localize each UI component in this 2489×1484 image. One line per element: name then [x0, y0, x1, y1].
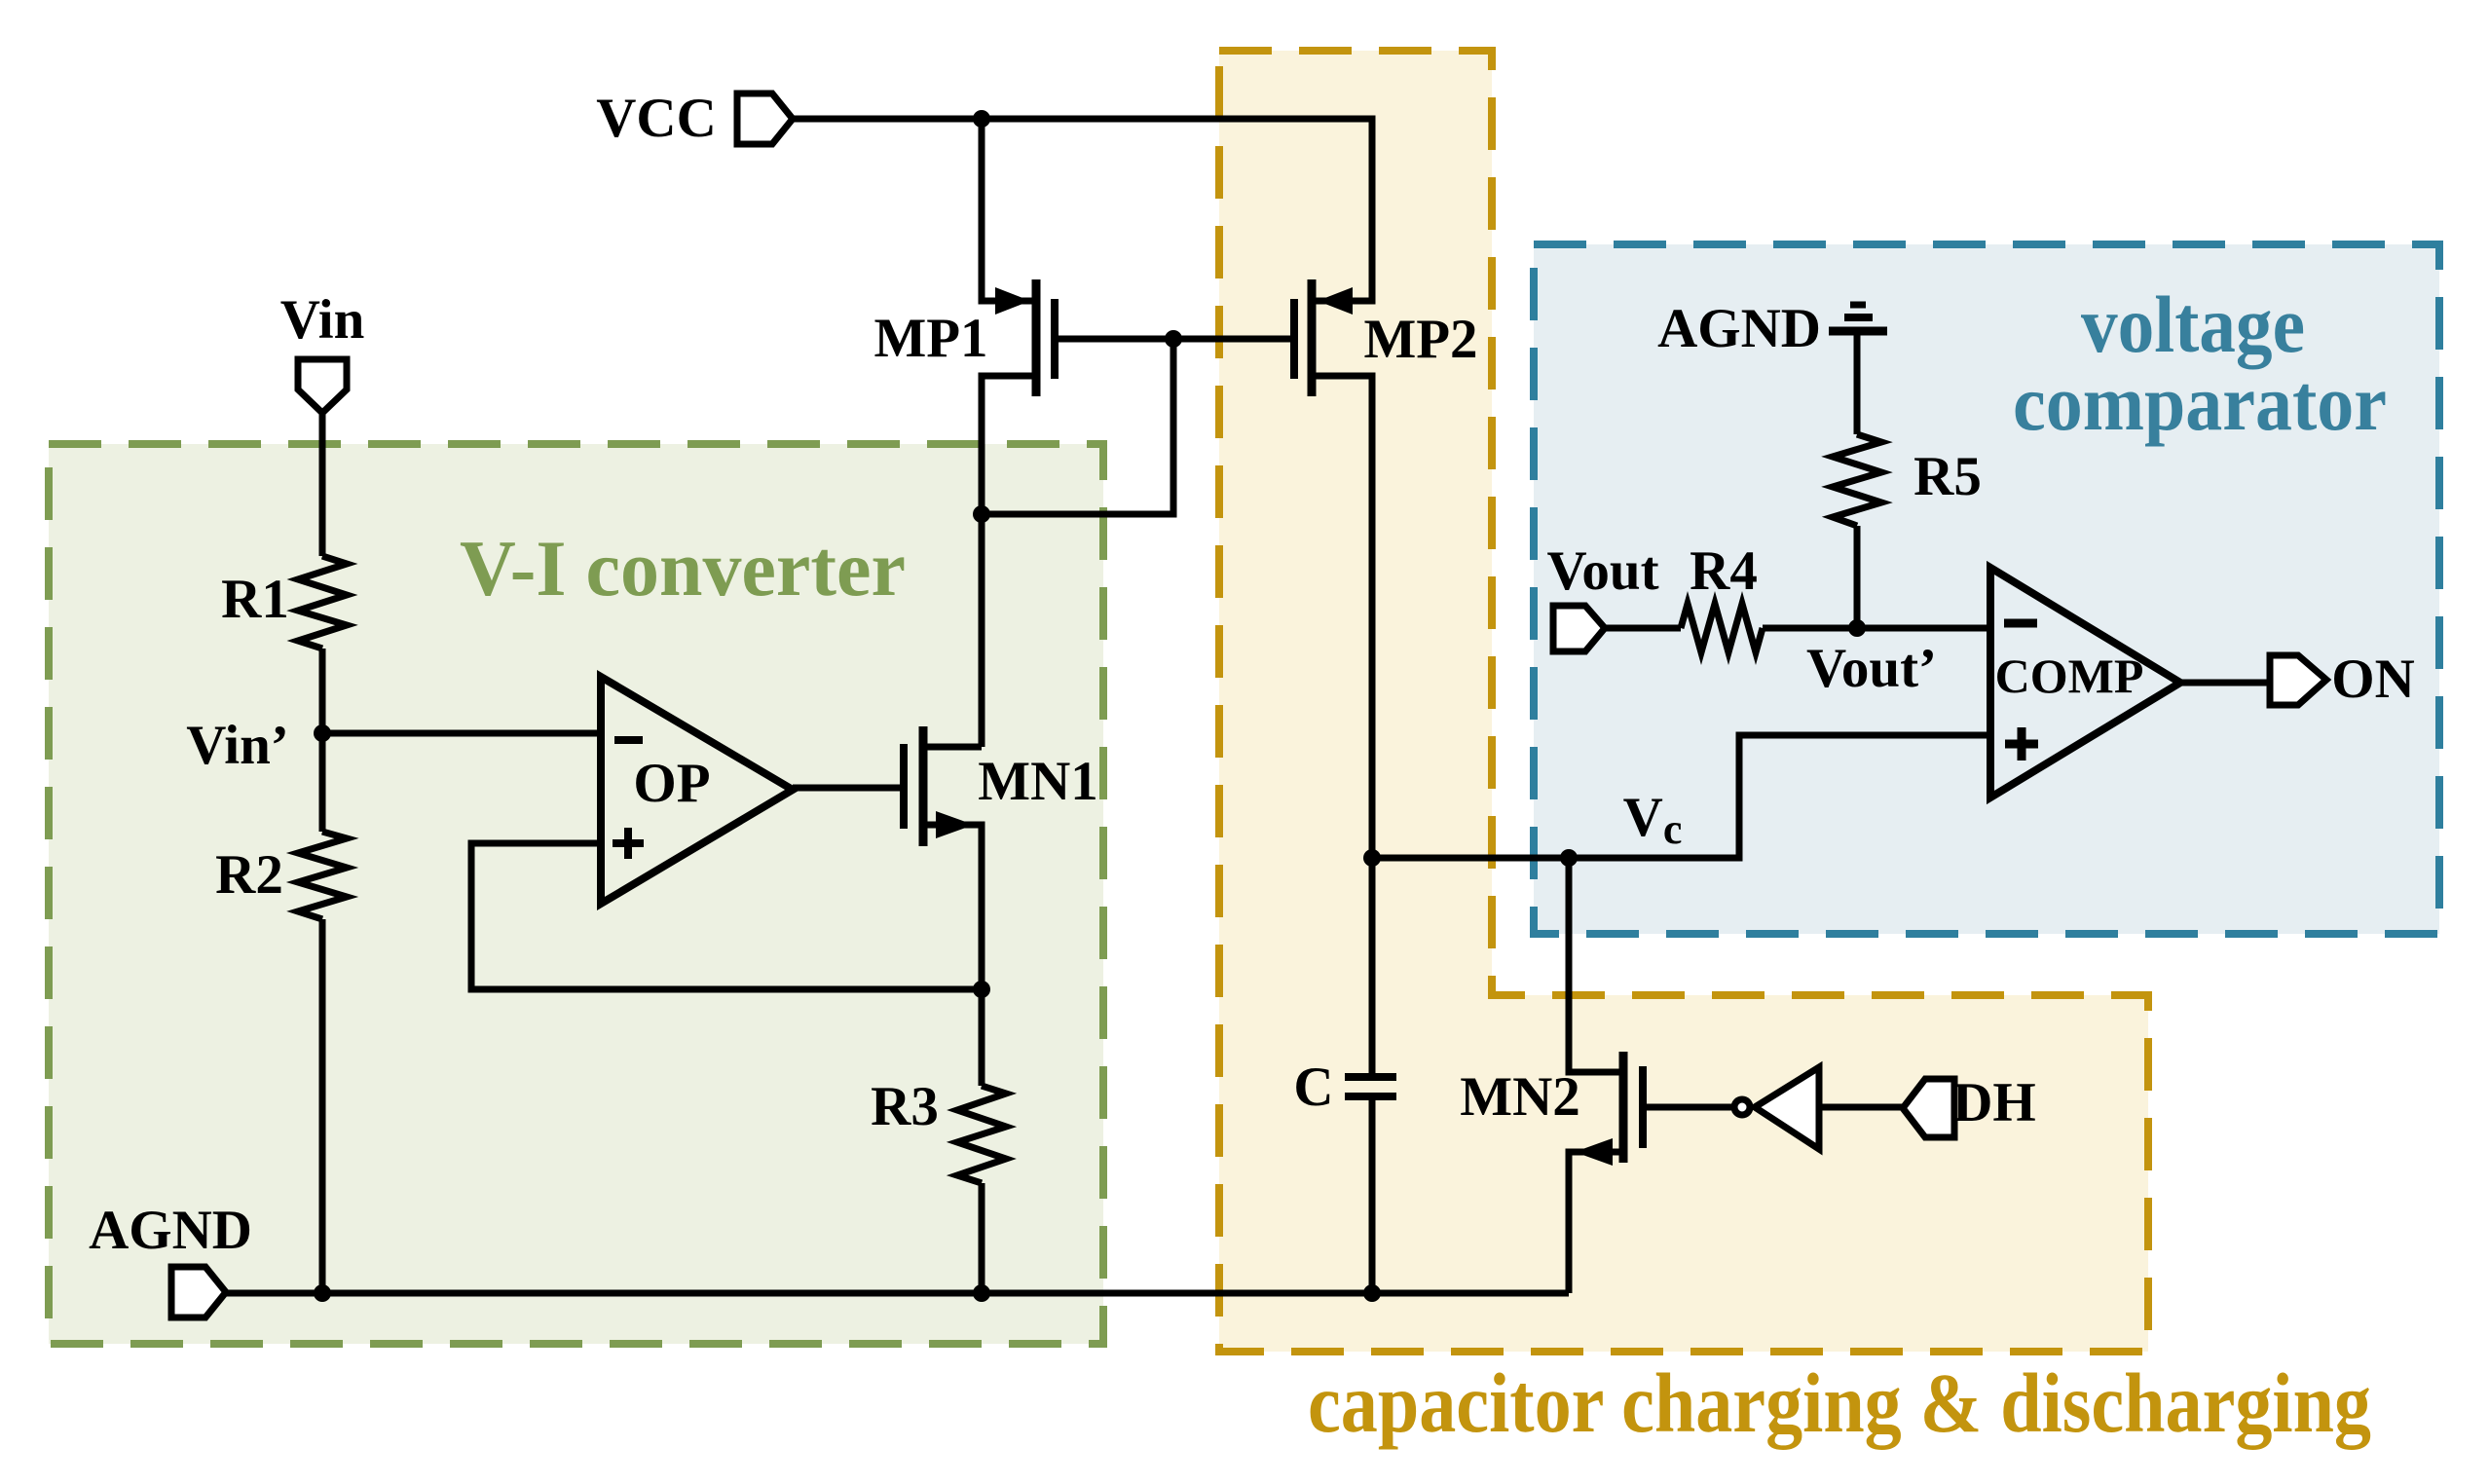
svg-text:MN2: MN2	[1460, 1066, 1579, 1128]
node dot VCC branch	[973, 110, 990, 128]
port DH	[1903, 1079, 1954, 1137]
inverter U1	[1734, 1067, 1819, 1149]
wire Vc to COMP plus input	[1372, 735, 1990, 858]
svg-text:MP2: MP2	[1363, 309, 1477, 370]
node dot Vc at MP2 drain	[1363, 849, 1381, 867]
svg-text:Vout’: Vout’	[1806, 638, 1937, 699]
node dot MP1 drain	[973, 505, 990, 523]
svg-text:R1: R1	[221, 569, 289, 630]
wire AGND bottom rail	[226, 1290, 1569, 1297]
ground symbol AGND (blue box)	[1829, 305, 1887, 331]
wire Vin' node to R2	[319, 733, 326, 832]
transistor MP1	[995, 279, 1055, 396]
wire MP1 drain stub and vertical	[982, 376, 1036, 747]
node dot AGND-C	[1363, 1284, 1381, 1302]
svg-text:AGND: AGND	[89, 1200, 252, 1261]
svg-text:Vin: Vin	[280, 289, 365, 351]
svg-text:capacitor charging & dischargi: capacitor charging & discharging	[1308, 1355, 2371, 1450]
resistor R3	[957, 1086, 1006, 1183]
port Vout	[1553, 606, 1605, 651]
svg-text:OP: OP	[633, 753, 710, 814]
comparator COMP	[1990, 568, 2180, 798]
node dot gate bus	[1165, 330, 1182, 348]
wire OP output to MN1 gate	[793, 785, 904, 792]
wire R1 to Vin' node	[319, 649, 326, 733]
wire MP1 source riser and stub	[982, 119, 1032, 301]
wire VCC rail top	[790, 119, 1372, 301]
wire MN2 source	[1569, 1152, 1623, 1293]
wire gate bus MP1-MP2	[1055, 336, 1294, 343]
capacitor C	[1345, 1077, 1396, 1096]
node dot AGND-R3	[973, 1284, 990, 1302]
svg-text:COMP: COMP	[1995, 649, 2144, 703]
node dot Vc at MN2 drain	[1560, 849, 1578, 867]
svg-text:AGND: AGND	[1657, 298, 1821, 359]
wire inverter input	[1819, 1104, 1903, 1111]
svg-text:DH: DH	[1952, 1072, 2036, 1133]
resistor R2	[298, 832, 347, 919]
svg-text:R2: R2	[215, 844, 283, 906]
wire COMP output	[2180, 680, 2270, 686]
svg-text:VCC: VCC	[596, 88, 717, 149]
wire diode-connect loop	[982, 339, 1173, 514]
resistor R5	[1833, 434, 1881, 526]
svg-text:Vout: Vout	[1546, 540, 1658, 602]
region box: voltage comparator (blue dashed)	[1534, 244, 2439, 934]
transistor MP2	[1294, 279, 1353, 396]
wire MN1 drain stub	[923, 744, 982, 751]
wire R5 to Vout' node	[1854, 526, 1861, 628]
node dot AGND-R2	[314, 1284, 331, 1302]
op-amp OP	[601, 677, 793, 904]
port ON	[2270, 655, 2326, 705]
region box: capacitor charging & discharging (gold dashed L-shape)	[1219, 51, 2148, 1352]
transistor MN1	[904, 726, 974, 846]
wire R2 to AGND rail	[319, 919, 326, 1293]
wire MP2 drain to capacitor C	[1312, 376, 1372, 1077]
svg-text:V-I converter: V-I converter	[460, 524, 906, 612]
port Vin	[298, 359, 347, 413]
OP plus sign	[613, 828, 644, 859]
svg-text:Vin’: Vin’	[186, 715, 289, 776]
wire Vin' to OP minus input	[322, 730, 601, 737]
COMP plus sign	[2005, 727, 2038, 761]
port VCC	[737, 93, 793, 144]
resistor R4	[1681, 604, 1763, 652]
wire OP plus feedback loop	[471, 843, 982, 989]
wire capacitor C bottom lead	[1369, 1096, 1376, 1293]
wire Vin port to R1	[319, 413, 326, 556]
node dot MN1 source feedback	[973, 981, 990, 998]
svg-text:ON: ON	[2331, 649, 2415, 710]
OP minus sign	[614, 736, 643, 744]
wire MN2 gate lead	[1643, 1104, 1731, 1111]
port AGND	[171, 1267, 226, 1317]
resistor R1	[298, 556, 347, 649]
svg-text:MN1: MN1	[978, 751, 1097, 812]
svg-text:MP1: MP1	[873, 308, 987, 369]
node dot Vin'	[314, 724, 331, 742]
svg-text:C: C	[1293, 1057, 1333, 1118]
wire ground symbol to R5	[1854, 335, 1861, 434]
wire MN1 source to R3	[923, 825, 982, 1086]
region box: V-I converter (green dashed)	[49, 444, 1103, 1344]
wire R4 to COMP minus input	[1763, 625, 1990, 632]
svg-text:voltage: voltage	[2081, 279, 2305, 369]
transistor MN2	[1575, 1052, 1643, 1166]
svg-text:R4: R4	[1690, 540, 1758, 602]
wire MN2 drain	[1569, 858, 1623, 1072]
node dot Vout'	[1848, 619, 1866, 637]
wire R3 to AGND rail	[979, 1183, 985, 1293]
svg-text:comparator: comparator	[2013, 358, 2387, 447]
svg-text:R5: R5	[1913, 446, 1982, 507]
COMP minus sign	[2004, 619, 2037, 628]
wire Vout port to R4	[1605, 625, 1681, 632]
svg-text:R3: R3	[871, 1076, 939, 1137]
